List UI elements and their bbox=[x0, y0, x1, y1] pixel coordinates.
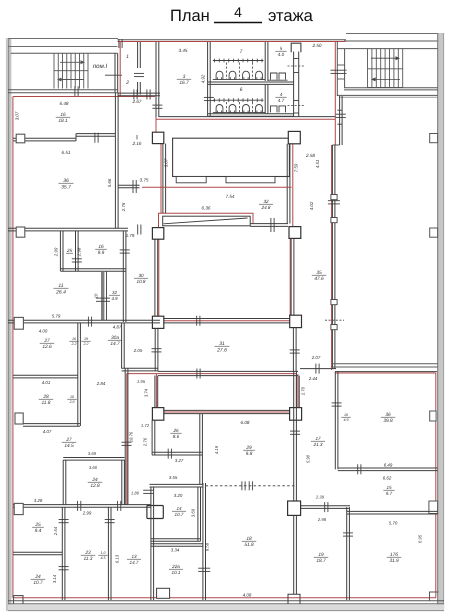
hall right wall bbox=[286, 144, 288, 224]
shaft thick wall x102.5 bbox=[101, 271, 104, 320]
svg-text:32: 32 bbox=[112, 290, 117, 295]
toilet rows divider wall bbox=[208, 81, 294, 83]
red hall bottom bbox=[142, 186, 292, 188]
svg-text:18.7: 18.7 bbox=[316, 558, 326, 564]
ramp wedge bbox=[163, 216, 251, 226]
svg-text:2.99: 2.99 bbox=[82, 511, 92, 516]
outer wall top-right section bbox=[346, 33, 444, 35]
svg-text:3.75: 3.75 bbox=[140, 178, 149, 183]
toilet bowls row2 bbox=[216, 105, 223, 113]
toilet row1 stall dashes bbox=[226, 63, 228, 80]
door tick core bottom wall bbox=[196, 316, 198, 326]
wall y185 vestibule bbox=[118, 184, 139, 186]
door ticks wall y94.5 bbox=[133, 89, 135, 99]
door jamb blocks corridor x333 bbox=[331, 195, 337, 200]
red line bottom inner bbox=[13, 597, 436, 599]
dashed axis line y486 bbox=[206, 485, 296, 487]
svg-text:39.8: 39.8 bbox=[383, 418, 393, 424]
svg-text:4.9: 4.9 bbox=[344, 418, 349, 422]
red corridor top bbox=[127, 373, 298, 375]
door ticks divider wall bbox=[343, 532, 353, 534]
red corridor left vertical bbox=[126, 374, 128, 505]
door tick x340 wall bbox=[336, 113, 346, 115]
red hall outline right bbox=[292, 131, 294, 228]
door tick wall y507 bbox=[324, 502, 326, 512]
svg-text:2.58: 2.58 bbox=[305, 153, 315, 158]
hall top wall bbox=[159, 116, 336, 118]
room 23 right wall bbox=[107, 507, 109, 600]
corridor left wall lower bbox=[124, 369, 126, 506]
svg-text:2.16: 2.16 bbox=[132, 141, 142, 146]
hall inner tab right bbox=[226, 177, 275, 183]
right wall tab y228 bbox=[430, 228, 438, 237]
svg-text:4.92: 4.92 bbox=[200, 74, 205, 83]
door tick wall y185 bbox=[132, 180, 134, 193]
rooms right wall x124.5 upper bbox=[122, 231, 124, 322]
core top-left post bbox=[152, 228, 163, 240]
svg-text:2.99: 2.99 bbox=[54, 247, 59, 257]
svg-text:4: 4 bbox=[280, 92, 283, 97]
door tick left stair right wall bbox=[105, 74, 122, 76]
urinal pair row2 bbox=[271, 106, 286, 113]
right stair bottom wall bbox=[344, 87, 438, 89]
rooms 27/28 right wall bbox=[77, 323, 79, 426]
svg-text:3.74: 3.74 bbox=[144, 388, 149, 397]
room 36 bottom wall bbox=[338, 467, 438, 469]
svg-text:31.9: 31.9 bbox=[389, 558, 399, 564]
svg-text:4.0: 4.0 bbox=[278, 52, 285, 57]
room3 left wall x157 bbox=[155, 42, 157, 117]
right stair arrow lower bbox=[375, 78, 400, 80]
svg-text:5: 5 bbox=[280, 46, 283, 51]
svg-text:6.13: 6.13 bbox=[114, 554, 119, 563]
door tick x295 wall y433 bbox=[290, 430, 300, 432]
toilet divider wall x266 bbox=[264, 42, 266, 81]
red core left bbox=[158, 238, 160, 318]
door tick room1 wall bbox=[134, 72, 144, 74]
door tick wall y368 bbox=[315, 364, 317, 374]
svg-text:15: 15 bbox=[386, 485, 392, 490]
big room top wall bbox=[337, 94, 437, 96]
svg-text:3.07: 3.07 bbox=[164, 158, 169, 167]
svg-text:26: 26 bbox=[172, 428, 179, 433]
svg-text:2.39: 2.39 bbox=[315, 495, 325, 500]
svg-text:2.07: 2.07 bbox=[311, 355, 321, 360]
svg-text:2.2: 2.2 bbox=[71, 342, 77, 346]
svg-text:12.6: 12.6 bbox=[42, 344, 52, 350]
toilet row2 partition chain bbox=[213, 99, 264, 101]
svg-text:2.44: 2.44 bbox=[308, 376, 318, 381]
svg-text:2.54: 2.54 bbox=[53, 526, 58, 536]
right stair hatch treads bbox=[367, 49, 369, 88]
door tick room26 bottom bbox=[167, 449, 169, 459]
svg-text:6.51: 6.51 bbox=[62, 150, 71, 155]
svg-text:27.6: 27.6 bbox=[216, 347, 227, 353]
room 30a bottom wall bbox=[122, 367, 158, 369]
door tick corridor x126 bbox=[122, 441, 132, 443]
toilet row1 partition chain bbox=[213, 60, 264, 62]
room 28 bottom wall bbox=[23, 423, 80, 425]
room 14 bottom wall bbox=[151, 538, 201, 540]
svg-text:7: 7 bbox=[240, 49, 243, 55]
door tick x109.7 wall bbox=[105, 519, 115, 521]
wall x295 long right of room 18 bbox=[293, 371, 295, 594]
svg-text:18.76: 18.76 bbox=[129, 431, 134, 442]
room36 top wall black bbox=[335, 371, 437, 373]
pilaster left y317 bbox=[14, 317, 23, 329]
toilet bowls row1 bbox=[216, 71, 223, 79]
core top-right post bbox=[289, 227, 301, 239]
door tick room16 wall bbox=[94, 133, 96, 143]
wall y321 left bbox=[8, 319, 160, 321]
red drop to hall corner post bbox=[155, 97, 157, 134]
room 30a right wall bbox=[121, 323, 123, 369]
svg-text:10: 10 bbox=[72, 337, 76, 341]
svg-text:3.34: 3.34 bbox=[171, 548, 180, 553]
notch x295 y594 bbox=[288, 594, 300, 604]
svg-text:11.8: 11.8 bbox=[42, 400, 51, 406]
corridor wall x340 upper bbox=[339, 96, 341, 145]
wall below left stair bbox=[8, 89, 118, 91]
hall corner post left bbox=[152, 132, 163, 143]
door tick corridor top wall bbox=[196, 369, 198, 379]
stair-block left wall bbox=[336, 41, 338, 96]
room 16 bottom wall with jog bbox=[13, 137, 76, 139]
svg-text:3.07: 3.07 bbox=[15, 111, 20, 120]
room 26 left wall bbox=[151, 420, 153, 455]
core bottom-right post bbox=[290, 315, 302, 327]
svg-text:3.20: 3.20 bbox=[174, 493, 183, 498]
door tick room16 right wall bbox=[120, 249, 130, 251]
door tick top wall x120 bbox=[118, 39, 120, 48]
pilaster left y504 bbox=[14, 503, 23, 514]
core bottom wall bbox=[152, 318, 299, 320]
red below-core verticals bbox=[155, 374, 157, 408]
toilet row2 base line bbox=[213, 112, 265, 114]
svg-text:51.8: 51.8 bbox=[244, 542, 254, 548]
red wall y373 right section bbox=[335, 372, 436, 374]
left stair arrow lower bbox=[61, 79, 84, 81]
svg-text:10: 10 bbox=[70, 395, 74, 399]
svg-text:2.98: 2.98 bbox=[77, 247, 82, 257]
hall corner post right bbox=[288, 131, 300, 143]
pilaster left at y134 bbox=[16, 134, 25, 143]
svg-text:13: 13 bbox=[131, 554, 137, 559]
core lower right wall bbox=[292, 328, 294, 372]
vent duct top box bbox=[291, 43, 301, 52]
toilet divider row2 bbox=[264, 84, 266, 113]
room 14 left wall bbox=[150, 487, 152, 600]
door jamb stubs right stair bbox=[337, 64, 344, 66]
wall y506 bottom-left bbox=[13, 504, 151, 506]
room 36 left wall bbox=[334, 371, 336, 469]
room 26/29 divider wall bbox=[199, 414, 201, 485]
svg-text:26.4: 26.4 bbox=[55, 289, 66, 295]
pilaster left y227 bbox=[16, 227, 25, 237]
svg-text:32: 32 bbox=[263, 199, 269, 204]
room 36 right wall bbox=[114, 93, 116, 229]
svg-text:6.36: 6.36 bbox=[202, 206, 211, 211]
svg-text:6.49: 6.49 bbox=[384, 463, 393, 468]
red line x120 stair block bbox=[119, 42, 121, 97]
toilet row2 stall dashes bbox=[226, 102, 228, 112]
door tick rooms18 left wall bbox=[198, 567, 210, 569]
svg-text:3.14: 3.14 bbox=[52, 574, 57, 583]
svg-text:4.51: 4.51 bbox=[315, 159, 320, 168]
pilaster bottom-left corner bbox=[14, 596, 24, 604]
door jamb stubs x340 wall bbox=[337, 109, 342, 111]
svg-text:10.1: 10.1 bbox=[172, 570, 181, 575]
svg-text:3.45: 3.45 bbox=[179, 48, 188, 53]
svg-text:4.87: 4.87 bbox=[113, 325, 122, 330]
toilet block left wall bbox=[207, 42, 209, 116]
red line right inner bbox=[435, 373, 437, 598]
corridor wall x333 lower bbox=[331, 145, 333, 369]
red line right stair left bbox=[334, 42, 336, 146]
door ticks x63.5 wall bbox=[59, 519, 69, 521]
below-core right wall x297 bbox=[295, 376, 297, 408]
room 14 right wall bbox=[197, 487, 199, 541]
svg-text:1.72: 1.72 bbox=[141, 423, 150, 428]
door tick small rooms bbox=[72, 258, 82, 260]
svg-text:47.6: 47.6 bbox=[314, 276, 324, 282]
svg-text:1: 1 bbox=[126, 54, 129, 60]
right wall corner tab y592 bbox=[430, 592, 439, 601]
svg-text:6.08: 6.08 bbox=[241, 420, 250, 425]
room 26 bottom wall bbox=[152, 451, 202, 453]
red ramp outline bbox=[159, 213, 254, 228]
corridor bottom posts bbox=[152, 408, 163, 421]
red line hall top bbox=[156, 118, 335, 120]
hall left wall bbox=[162, 144, 164, 214]
svg-text:4.5: 4.5 bbox=[101, 556, 106, 560]
svg-text:2.0: 2.0 bbox=[69, 400, 75, 404]
svg-text:0.95: 0.95 bbox=[418, 534, 423, 543]
svg-text:2.98: 2.98 bbox=[317, 517, 327, 522]
box in room 22a bbox=[157, 588, 170, 598]
svg-text:7.54: 7.54 bbox=[226, 194, 235, 199]
svg-text:6.62: 6.62 bbox=[383, 476, 392, 481]
right wall tab y411 bbox=[430, 411, 436, 421]
toilet block bottom wall bbox=[208, 113, 294, 115]
svg-text:План: План bbox=[170, 7, 210, 25]
right wall tab y501 bbox=[429, 501, 438, 514]
right wall tab y133 bbox=[430, 134, 438, 143]
red hall outline left bbox=[160, 133, 162, 213]
svg-text:2.50: 2.50 bbox=[312, 43, 322, 48]
door tick room36 bottom wall bbox=[357, 464, 359, 474]
svg-text:14.5: 14.5 bbox=[64, 443, 74, 449]
wall y228 long bbox=[8, 227, 128, 229]
svg-text:4.7: 4.7 bbox=[278, 98, 285, 103]
svg-text:25: 25 bbox=[66, 248, 73, 253]
wall y553 room25 bottom bbox=[13, 551, 62, 553]
svg-text:9.9: 9.9 bbox=[98, 250, 105, 256]
svg-text:12.8: 12.8 bbox=[90, 483, 100, 489]
hall inner tab left bbox=[176, 177, 206, 183]
svg-text:5.70: 5.70 bbox=[389, 521, 398, 526]
svg-text:2.84: 2.84 bbox=[96, 381, 106, 386]
right stair landing line bbox=[368, 68, 403, 70]
door tick core lower right bbox=[290, 349, 300, 351]
svg-text:4.07: 4.07 bbox=[43, 429, 52, 434]
room1/2 partition wall x139 bbox=[137, 42, 139, 68]
room24 west corridor wall bbox=[121, 460, 123, 505]
left stair hatch treads bbox=[53, 54, 55, 89]
svg-text:3.28: 3.28 bbox=[34, 498, 43, 503]
svg-text:3.55: 3.55 bbox=[169, 475, 178, 480]
red line room16 bottom bbox=[13, 96, 155, 98]
right stair hatch bottom bbox=[368, 86, 403, 88]
core bottom-left post bbox=[152, 316, 163, 328]
below-core left wall x156 bbox=[154, 376, 156, 408]
svg-text:6.48: 6.48 bbox=[60, 101, 69, 106]
door tick shaft bbox=[96, 297, 110, 299]
svg-text:этажа: этажа bbox=[268, 7, 314, 25]
door tick wall y486 bbox=[143, 489, 153, 491]
outer wall top-left section bbox=[8, 38, 118, 40]
outer wall top-middle section bbox=[118, 39, 347, 41]
room 24 top wall bbox=[63, 457, 124, 459]
svg-text:8.58: 8.58 bbox=[205, 542, 210, 551]
room 27 bottom wall bbox=[13, 374, 78, 376]
svg-text:24.8: 24.8 bbox=[261, 205, 271, 210]
door dashes corridor lower bbox=[325, 319, 344, 321]
room 22a top wall bbox=[151, 543, 203, 545]
post x295 y501 bbox=[288, 501, 301, 515]
svg-text:4.02: 4.02 bbox=[309, 201, 314, 210]
svg-text:10.8: 10.8 bbox=[137, 279, 146, 284]
svg-text:5.79: 5.79 bbox=[52, 314, 61, 319]
svg-text:2: 2 bbox=[125, 80, 129, 86]
svg-text:1.0: 1.0 bbox=[101, 551, 106, 555]
left stair right wall bbox=[114, 53, 116, 93]
svg-text:16.7: 16.7 bbox=[179, 80, 189, 86]
svg-text:2.67: 2.67 bbox=[132, 99, 142, 104]
door tick right stair bbox=[331, 69, 347, 71]
svg-text:3.69: 3.69 bbox=[88, 451, 97, 456]
svg-text:9.8: 9.8 bbox=[246, 451, 253, 457]
svg-text:3.60: 3.60 bbox=[89, 465, 98, 470]
big room bottom wall bbox=[333, 363, 438, 365]
red line top inner bbox=[118, 41, 346, 43]
rooms 18 left wall bbox=[202, 483, 204, 600]
svg-text:6: 6 bbox=[240, 87, 243, 93]
door jamb blocks corridor lower bbox=[331, 300, 337, 305]
door tick room36 left wall bbox=[332, 402, 342, 404]
svg-text:10: 10 bbox=[94, 293, 99, 298]
left stair room top wall bbox=[11, 52, 118, 54]
svg-text:18.1: 18.1 bbox=[58, 118, 68, 124]
wall right of ramp bbox=[250, 223, 288, 225]
door tick below left stair bbox=[74, 86, 76, 96]
red corridor bottom bbox=[163, 411, 290, 413]
svg-text:5.66: 5.66 bbox=[107, 178, 112, 187]
red line left inner bbox=[12, 97, 14, 599]
svg-text:10.7: 10.7 bbox=[175, 512, 184, 517]
wall y513 room 17b top bbox=[347, 510, 438, 512]
svg-text:9.7: 9.7 bbox=[386, 491, 393, 496]
left stair landing line bbox=[54, 70, 88, 72]
door tick corridor x333 bbox=[328, 200, 340, 202]
svg-text:3.69: 3.69 bbox=[191, 508, 196, 517]
svg-text:2.2: 2.2 bbox=[83, 342, 89, 346]
svg-text:4.00: 4.00 bbox=[39, 329, 48, 334]
outer wall left bbox=[6, 38, 11, 611]
svg-text:4: 4 bbox=[234, 4, 242, 20]
room 19/17b divider wall bbox=[346, 507, 348, 600]
left stair arrow up bbox=[60, 61, 81, 63]
svg-text:11.3: 11.3 bbox=[84, 556, 93, 562]
svg-text:пом.I: пом.I bbox=[93, 63, 108, 70]
svg-text:2.76: 2.76 bbox=[143, 437, 148, 447]
svg-text:2.76: 2.76 bbox=[121, 202, 126, 212]
svg-text:9.4: 9.4 bbox=[35, 528, 42, 534]
svg-text:5.90: 5.90 bbox=[305, 454, 310, 463]
vent duct dashed ties bbox=[288, 65, 305, 67]
red line toilet-stair corridor lower bbox=[331, 145, 333, 370]
door tick wall right of ramp bbox=[270, 218, 272, 232]
column block bbox=[147, 506, 163, 519]
svg-text:14.7: 14.7 bbox=[130, 560, 139, 565]
svg-text:35.7: 35.7 bbox=[61, 184, 71, 190]
svg-text:22a: 22a bbox=[171, 564, 180, 569]
svg-text:30: 30 bbox=[138, 273, 144, 278]
svg-text:1.79: 1.79 bbox=[126, 233, 135, 238]
door tick wall y321 bbox=[87, 317, 89, 327]
urinal pair row1 bbox=[271, 73, 286, 80]
wall y368 corridor south bbox=[300, 368, 336, 370]
door tick core lower left bbox=[152, 348, 162, 350]
wall y486 left part bbox=[150, 483, 204, 485]
svg-text:1.95: 1.95 bbox=[137, 379, 146, 384]
svg-text:17: 17 bbox=[315, 436, 321, 441]
door ticks wall y506 bbox=[77, 501, 79, 511]
shaft wall x106.3 bbox=[106, 271, 108, 320]
pilaster left y413 bbox=[15, 413, 23, 424]
toilet row1 base line bbox=[213, 79, 265, 81]
svg-text:2.70: 2.70 bbox=[300, 386, 305, 396]
svg-text:7.59: 7.59 bbox=[293, 163, 298, 172]
outer wall right bbox=[438, 33, 443, 611]
door tick toilet left wall bbox=[204, 96, 214, 98]
right stair arrow upper bbox=[371, 57, 396, 59]
svg-text:14: 14 bbox=[176, 506, 182, 511]
svg-text:8.6: 8.6 bbox=[173, 434, 180, 439]
svg-text:14.7: 14.7 bbox=[110, 341, 120, 347]
red core bottom bbox=[153, 320, 298, 322]
corridor wall jog y145 bbox=[332, 144, 339, 146]
svg-text:10.7: 10.7 bbox=[33, 580, 43, 586]
small rooms bottom wall y270 bbox=[60, 268, 126, 270]
right stair room left wall bbox=[344, 49, 346, 88]
wall y507 room19 top bbox=[300, 505, 350, 507]
svg-text:2.05: 2.05 bbox=[133, 348, 143, 353]
hall inner rectangle bbox=[173, 138, 290, 176]
red core right bbox=[289, 238, 291, 316]
small room wall x61.5 bbox=[59, 231, 61, 271]
core lower left wall bbox=[154, 328, 156, 371]
room 24 left wall bbox=[62, 460, 64, 505]
outer wall bottom bbox=[8, 604, 444, 610]
door tick corridor entrance bbox=[137, 225, 139, 235]
svg-text:4.01: 4.01 bbox=[42, 380, 51, 385]
right stair top wall bbox=[337, 48, 437, 50]
corridor top wall y371 bbox=[158, 370, 298, 372]
core right wall bbox=[290, 238, 292, 316]
svg-text:1.80: 1.80 bbox=[131, 491, 140, 496]
svg-text:4.19: 4.19 bbox=[214, 445, 219, 454]
